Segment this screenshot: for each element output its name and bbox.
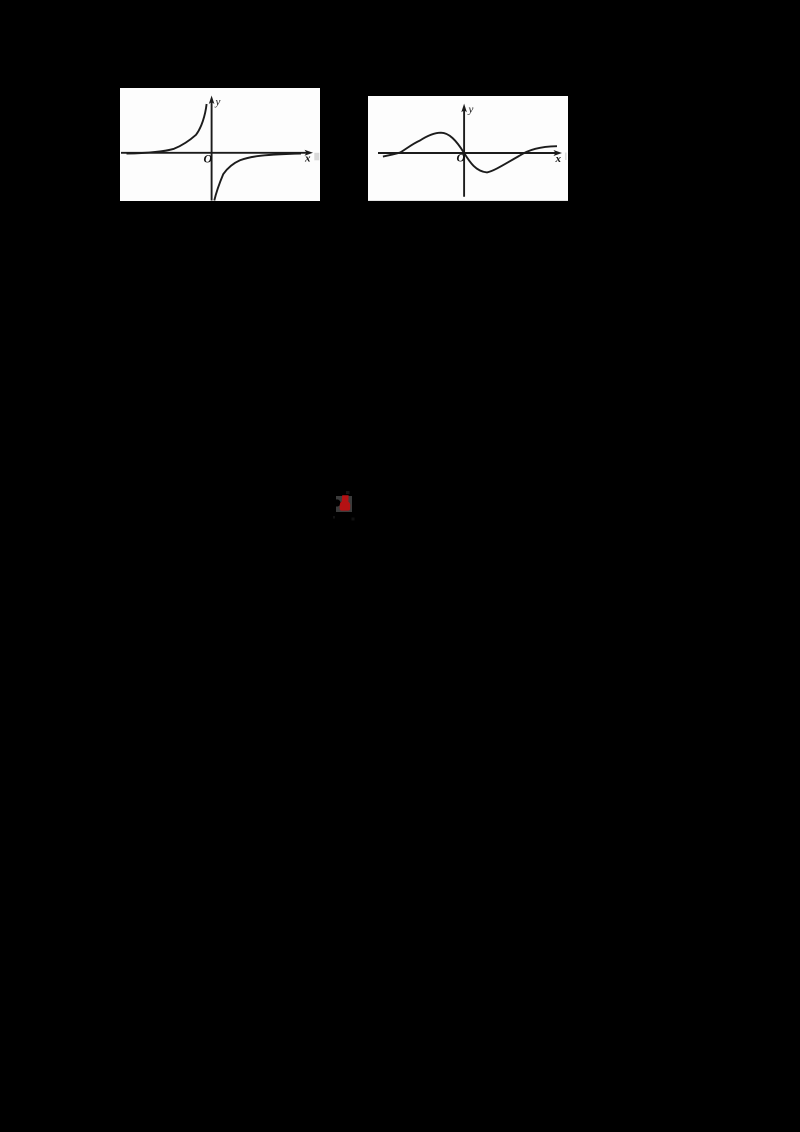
svg-text:x: x bbox=[304, 152, 311, 164]
x-axis arrowhead bbox=[554, 150, 562, 156]
x-axis arrowhead bbox=[304, 150, 313, 156]
y-axis bbox=[210, 98, 212, 200]
y-axis bbox=[463, 107, 465, 197]
curve branch x<0 bbox=[126, 104, 206, 154]
faint marks below icon bbox=[330, 516, 335, 519]
x-axis bbox=[121, 152, 307, 154]
figure: left graph (y = -1/x style hyperbola) bbox=[120, 88, 320, 201]
figure: right graph (odd wave curve) bbox=[368, 96, 568, 201]
white figure background bbox=[120, 88, 320, 201]
y-axis arrowhead bbox=[209, 95, 215, 104]
wave curve bbox=[383, 132, 557, 172]
svg-text:y: y bbox=[468, 103, 474, 115]
y-axis arrowhead bbox=[461, 103, 467, 112]
svg-text:x: x bbox=[555, 153, 562, 165]
black notch on left bbox=[333, 499, 340, 506]
gray square bbox=[336, 496, 352, 512]
svg-text:O: O bbox=[203, 151, 212, 165]
small icon: gray square with red glyph bbox=[333, 490, 357, 522]
x-axis bbox=[378, 152, 556, 154]
white figure background bbox=[368, 96, 568, 201]
faint gray dash near right edge bbox=[565, 152, 567, 159]
curve branch x>0 bbox=[214, 153, 301, 200]
faint mark above icon bbox=[346, 491, 350, 494]
red glyph bbox=[340, 495, 351, 510]
svg-text:y: y bbox=[214, 96, 220, 108]
gray nub at axis end bbox=[314, 153, 319, 161]
